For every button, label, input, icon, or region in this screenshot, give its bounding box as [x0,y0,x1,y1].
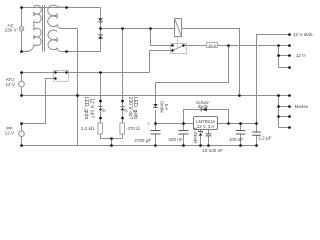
svg-text:12 V: 12 V [296,53,306,58]
capacitor C4 100nF plates [236,131,245,135]
node 330nF bottom [182,144,185,147]
wire 4700uF bottom lead [155,134,157,145]
svg-text:12 V, 3 A: 12 V, 3 A [197,124,214,129]
LED2 yellow symbol [121,105,125,108]
wire 330nF bottom lead [183,134,185,145]
transformer T1 secondary winding loops [48,5,78,28]
wire 12V line riser to switch lower throw [150,51,173,73]
wire KFz contact lower throw [22,79,56,124]
wire primary bottom lead [22,51,30,53]
svg-text:12 V: 12 V [5,82,15,87]
wire LED1 to resistor R1 [100,110,102,123]
bottom rail [22,145,257,147]
wire R1 bottom [100,134,102,139]
capacitor C1 4700uF plates [151,131,161,135]
regulator U1 box [194,117,218,130]
transformer T1 core lines [43,5,45,52]
node 330nF input junction [182,122,185,125]
wire 4700uF top lead [155,124,157,131]
node AC top [20,6,23,9]
node LED2 tap [121,27,124,30]
svg-text:Diode: Diode [159,101,164,113]
regulator input line [156,123,194,125]
node fuse line diode tap [227,44,230,47]
fuse F1 box [207,43,218,48]
svg-text:330 nF: 330 nF [168,137,182,142]
wire LED2 branch from DC+ rail [122,29,124,107]
wire center tap drop to ground [77,29,79,96]
node 2.2uF bottom [255,144,258,147]
Masse stub 4 [279,127,290,129]
node switch lower-left [171,49,173,51]
wire rectifier top drop [100,8,102,19]
node primary bottom [20,50,23,53]
wire switch upper throw feed [151,29,173,46]
wire 12V stab feed [257,35,290,124]
wire center tap ground drop to bottom rail [77,96,79,146]
wire between D1 and D2 [100,22,102,35]
svg-text:5 A: 5 A [164,104,169,111]
svg-text:15 A: 15 A [208,43,216,48]
node zener bottom [199,144,202,147]
KFz source symbol [19,81,25,87]
node 12V terminal 3 [288,66,291,69]
svg-text:12 V: 12 V [5,131,15,136]
wire top rail from AC to rectifier [22,7,101,9]
node 10-100nF bottom [207,144,210,147]
ground rail [22,95,290,97]
node 12V bus mid [277,54,280,57]
svg-text:Masse: Masse [295,104,309,109]
node LED1 anode [99,100,102,103]
wire fuse line down to protection diode path [156,46,229,83]
svg-text:LED, grün: LED, grün [83,97,89,120]
wire diode 5A upper lead [155,83,157,105]
node 100nF output junction [239,122,242,125]
node 12V terminal 2 [288,54,291,57]
node switch common [182,44,184,46]
node 12V bus top [277,44,280,47]
node secondary top terminal [65,6,68,9]
node secondary bottom terminal [65,50,68,53]
svg-text:1,2 kΩ: 1,2 kΩ [81,126,95,131]
wire secondary bottom lead [62,51,101,53]
KFz contact S2 box [54,71,69,82]
wire KFz bottom lead [21,87,23,96]
node switch top-left [171,44,173,46]
capacitor C3 10-100nF plates [206,134,212,136]
node 100nF bottom [239,144,242,147]
wire LED resistor join [101,138,123,140]
svg-text:diode: diode [198,104,209,109]
svg-text:2,2 µF: 2,2 µF [258,135,271,140]
protection diode D4 [202,108,207,112]
12V terminal stub bottom [279,67,290,69]
wire D2 bottom to secondary bottom [100,39,102,52]
node contact lower-left [54,77,56,79]
node Masse bus 2 [277,105,280,108]
diode D1 [98,18,103,21]
node Masse terminal 4 [288,126,291,129]
resistor R1 [98,123,103,134]
node 4700uF bottom [154,144,157,147]
node 12V stab terminal [288,33,291,36]
node diode5A input junction [154,122,157,125]
svg-text:12 V stab.: 12 V stab. [293,32,314,37]
node output end junction [255,122,258,125]
wire AC source left vertical [21,8,23,52]
12V terminal bus [278,46,280,68]
wire 100nF top lead [240,124,242,131]
node LED2 cathode [121,117,124,120]
node PP top [20,122,23,125]
wire 2.2uF bottom lead [256,135,258,145]
wire diode 5A lower lead [155,110,157,124]
wire 12V switched line [22,72,150,74]
capacitor C2 330nF plates [179,131,189,135]
wire DC+ rail to relay coil [101,28,175,30]
node PP bottom [20,144,23,147]
node contact top-left [54,71,56,73]
capacitor C5 2.2uF plates [252,132,261,135]
svg-text:100 nF: 100 nF [229,137,243,142]
zener diode ZD1 [199,130,203,133]
wire 100nF bottom lead [240,134,242,145]
svg-text:10-100 nF: 10-100 nF [202,148,223,153]
node coil return ground [238,94,241,97]
relay K1 linkage [177,37,179,48]
Masse terminal bus [278,96,280,128]
wire 10-100nF branch top [208,130,210,134]
protection diode bypass line [184,110,229,124]
diode D2 [98,34,103,37]
wire R2 bottom [122,134,124,139]
12V terminal stub middle [279,55,290,57]
svg-text:4700 µF: 4700 µF [134,138,151,143]
svg-text:470 Ω: 470 Ω [127,126,140,131]
Masse stub 3 [279,116,290,118]
Masse stub 2 [279,106,290,108]
node LED1 cathode [99,117,102,120]
svg-text:230 V: 230 V [5,28,18,33]
AC source symbol [19,27,24,32]
svg-text:Z-Diode: Z-Diode [193,127,198,144]
node 12V terminal 1 [288,44,291,47]
relay K1 coil [175,19,182,37]
node KFz top [20,71,23,74]
node contact top-right [65,71,67,73]
resistor R2 [120,123,125,134]
wire relay coil to ground [182,29,240,96]
node Masse terminal 1 [288,94,291,97]
node LED join bottom rail [110,144,113,147]
wire switch common to fuse [184,45,207,47]
wire PP bottom lead [21,136,23,145]
transformer T1 primary winding loops [22,5,42,51]
node center tap ground [76,94,79,97]
node KFz bottom [20,94,23,97]
relay switch S1 box [171,44,187,54]
diode D3 5A [153,104,157,107]
wire zener branch bottom [200,136,202,146]
node bypass output junction [227,122,230,125]
wire LED2 to resistor R2 [122,110,124,123]
LED1 green symbol [99,105,103,108]
node Masse bus top [277,94,280,97]
svg-text:LED, gelb: LED, gelb [132,97,138,119]
node LED1 tap [99,71,102,74]
wire zener branch top [200,130,202,132]
relay switch S1 lever [173,46,184,51]
wire 2.2uF top lead [256,124,258,132]
node Masse bus 3 [277,115,280,118]
wire LED1 branch from 12V line [100,73,102,107]
PP source symbol [19,131,25,137]
wire PP top lead [21,124,23,132]
wire fuse to 12V terminals [218,45,290,47]
wire 10-100nF branch bottom [208,136,210,145]
node LED resistor join [110,137,113,140]
wire KFz top lead [21,73,23,82]
node Masse terminal 2 [288,105,291,108]
wire 330nF top lead [183,124,185,131]
wire LED join to bottom rail [111,139,113,146]
node switch feed tap [149,27,152,30]
node LED2 anode [121,100,124,103]
svg-text:12 V ok?: 12 V ok? [89,98,95,118]
regulator output line [218,123,257,125]
node Masse terminal 3 [288,115,291,118]
node rectifier junction [99,27,102,30]
